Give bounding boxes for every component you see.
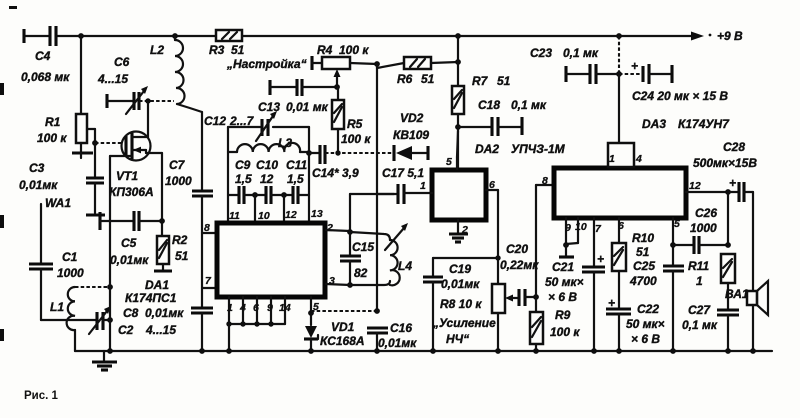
svg-text:C11: C11 xyxy=(286,158,307,172)
wire DA3 pin8 line xyxy=(536,185,553,297)
resistor R9 xyxy=(530,297,580,351)
resistor R4 potentiometer xyxy=(312,43,377,87)
svg-text:1000: 1000 xyxy=(165,174,192,188)
svg-text:0,01мк: 0,01мк xyxy=(110,253,149,267)
svg-text:C17 5,1: C17 5,1 xyxy=(382,166,424,180)
capacitor C19 xyxy=(423,258,480,351)
svg-text:VD1: VD1 xyxy=(331,320,355,334)
svg-text:0,1 мк: 0,1 мк xyxy=(563,46,599,60)
node R6/R7 xyxy=(455,59,461,65)
capacitor C21 label xyxy=(545,260,584,304)
inductor L2 xyxy=(150,36,202,112)
capacitor C13 xyxy=(258,79,337,114)
capacitor C5 xyxy=(100,211,162,267)
wire DA1 pin5 xyxy=(308,297,319,325)
resistor R8 potentiometer Усиление НЧ xyxy=(432,284,518,351)
capacitor C1 xyxy=(29,250,84,320)
svg-text:50 мк×: 50 мк× xyxy=(626,317,665,331)
svg-text:DA2: DA2 xyxy=(475,142,499,156)
power amp IC DA3 К174УН7 xyxy=(554,168,686,218)
node pin6 link xyxy=(495,255,500,260)
svg-text:2: 2 xyxy=(461,224,468,236)
node C26 tap xyxy=(670,242,676,248)
supply arrow +9 В xyxy=(691,29,743,43)
capacitor C20 xyxy=(500,242,539,306)
capacitor C4 xyxy=(21,26,70,84)
svg-text:C14* 3,9: C14* 3,9 xyxy=(312,166,359,180)
capacitor C27 xyxy=(682,303,739,351)
svg-text:+: + xyxy=(631,59,638,73)
wire DA3 pin12 output xyxy=(686,189,731,248)
inductor L4 xyxy=(385,223,412,285)
svg-text:C24 20 мк × 15 В: C24 20 мк × 15 В xyxy=(632,89,728,103)
svg-text:0,068 мк: 0,068 мк xyxy=(21,70,70,84)
diode VD2 КВ109 varicap xyxy=(393,111,429,161)
svg-text:L1: L1 xyxy=(50,300,64,314)
node tap pin12 xyxy=(281,192,287,198)
wire C6 to L2/drain xyxy=(139,100,174,102)
svg-text:0,01мк: 0,01мк xyxy=(441,277,480,291)
svg-text:C4: C4 xyxy=(35,49,51,63)
svg-text:К174УН7: К174УН7 xyxy=(678,117,730,131)
square IC DA2 УПЧЗ-1М xyxy=(432,142,566,220)
svg-text:WA1: WA1 xyxy=(45,196,71,210)
wire tuning line R4 down xyxy=(376,64,378,311)
resistor R5 xyxy=(332,87,371,153)
svg-text:„Настройка“: „Настройка“ xyxy=(226,57,307,71)
svg-text:2: 2 xyxy=(326,222,333,234)
svg-text:12: 12 xyxy=(285,209,297,221)
capacitor C10 xyxy=(255,158,284,204)
svg-text:13: 13 xyxy=(311,208,323,220)
svg-text:100 к: 100 к xyxy=(550,325,580,339)
capacitor C26 xyxy=(673,206,728,254)
svg-text:R7: R7 xyxy=(472,74,489,88)
wire pin8 stub xyxy=(202,232,216,234)
svg-text:R9: R9 xyxy=(555,308,571,322)
svg-text:R6: R6 xyxy=(397,72,413,86)
svg-text:DA3: DA3 xyxy=(642,117,666,131)
wire gate to VT1 xyxy=(95,142,122,144)
resistor R10 xyxy=(612,218,654,308)
svg-text:C3: C3 xyxy=(29,161,45,175)
svg-text:6: 6 xyxy=(618,220,624,232)
DA1 bottom pins 1 4 6 9 14 xyxy=(226,297,291,351)
svg-text:L4: L4 xyxy=(398,259,412,273)
svg-text:C27: C27 xyxy=(688,303,711,317)
node L2 top xyxy=(172,33,178,39)
svg-text:НЧ“: НЧ“ xyxy=(446,332,469,346)
node L1 link xyxy=(107,284,113,290)
wire supply drop xyxy=(618,36,620,74)
node C5/R2 xyxy=(159,218,165,224)
svg-text:50 мк×: 50 мк× xyxy=(545,275,584,289)
svg-text:9: 9 xyxy=(267,302,273,314)
node supply branch xyxy=(616,33,622,39)
wire ground bus xyxy=(75,350,772,352)
capacitor C25 on pin5 xyxy=(629,218,684,351)
svg-text:14: 14 xyxy=(279,302,291,314)
wire varicap line xyxy=(325,150,394,155)
svg-text:VD2: VD2 xyxy=(400,111,424,125)
svg-text:VT1: VT1 xyxy=(116,169,138,183)
wire C1 to C2 xyxy=(41,319,96,321)
svg-text:DA1: DA1 xyxy=(145,278,169,292)
wire L1 top link xyxy=(75,286,110,288)
svg-text:+: + xyxy=(729,176,736,190)
capacitor C6 variable xyxy=(97,55,148,114)
svg-text:К174ПС1: К174ПС1 xyxy=(125,291,177,305)
svg-text:100 к: 100 к xyxy=(339,43,369,57)
svg-text:1: 1 xyxy=(420,180,426,192)
svg-text:1000: 1000 xyxy=(690,221,717,235)
svg-text:× 6 В: × 6 В xyxy=(631,332,660,346)
resistor R7 xyxy=(452,36,511,169)
capacitor C18 xyxy=(458,98,547,136)
wire C1 branch xyxy=(40,204,42,263)
svg-text:0,1 мк: 0,1 мк xyxy=(682,318,718,332)
capacitor C11 xyxy=(284,158,309,204)
coil box tank L3 xyxy=(228,127,309,222)
node gate junction xyxy=(87,129,98,146)
wire tap pin12 down xyxy=(283,195,285,222)
svg-text:8: 8 xyxy=(542,175,548,187)
svg-text:R8 10 к: R8 10 к xyxy=(440,297,482,311)
node C23/C24 xyxy=(616,71,622,77)
svg-text:82: 82 xyxy=(354,266,368,280)
svg-text:C16: C16 xyxy=(390,321,412,335)
node C16 top xyxy=(374,308,380,314)
wire pin6/C19 link xyxy=(433,257,498,259)
svg-text:L2: L2 xyxy=(150,43,164,57)
svg-text:51: 51 xyxy=(497,74,511,88)
wire top +9V rail xyxy=(24,35,692,37)
inductor L3 xyxy=(228,136,309,152)
wire DA1 pin3 xyxy=(326,281,390,285)
svg-text:4...15: 4...15 xyxy=(145,323,176,337)
node C4/R1 junction xyxy=(78,33,84,39)
svg-text:9: 9 xyxy=(565,222,571,234)
label DA3 xyxy=(642,117,730,131)
svg-text:C23: C23 xyxy=(530,46,552,60)
svg-text:C2: C2 xyxy=(118,323,134,337)
capacitor C24 polarized xyxy=(619,59,728,103)
svg-text:R5: R5 xyxy=(347,117,363,131)
svg-text:× 6 В: × 6 В xyxy=(548,290,577,304)
svg-text:1000: 1000 xyxy=(57,266,84,280)
inductor L1 xyxy=(50,287,75,351)
wire DA3 pin7 with electrolytic xyxy=(582,218,605,351)
svg-text:КП306А: КП306А xyxy=(109,185,154,199)
antenna terminal WA1 xyxy=(45,196,105,215)
node tap pin10 xyxy=(252,192,258,198)
wire DA2 pin6 xyxy=(486,179,498,284)
svg-text:„Усиление: „Усиление xyxy=(432,316,496,330)
svg-text:+9 В: +9 В xyxy=(717,29,743,43)
svg-text:Рис. 1: Рис. 1 xyxy=(24,390,59,402)
svg-text:0,1 мк: 0,1 мк xyxy=(511,98,547,112)
svg-text:R2: R2 xyxy=(172,233,188,247)
svg-text:C7: C7 xyxy=(169,158,186,172)
svg-text:R10: R10 xyxy=(632,231,654,245)
op-amp mixer IC DA1 К174ПС1 xyxy=(125,223,325,305)
capacitor C15 xyxy=(340,232,374,285)
svg-text:4: 4 xyxy=(239,302,246,314)
node bus junctions xyxy=(107,348,756,354)
node C14 tap xyxy=(306,150,312,156)
resistor R3 xyxy=(209,30,245,57)
svg-text:ВА1: ВА1 xyxy=(725,287,749,301)
svg-text:+: + xyxy=(597,252,604,266)
svg-text:4: 4 xyxy=(635,153,642,165)
svg-text:6: 6 xyxy=(253,302,259,314)
svg-text:R11: R11 xyxy=(688,259,709,273)
wire pin5 to C16 xyxy=(311,310,377,312)
svg-text:6: 6 xyxy=(489,179,495,191)
svg-text:11: 11 xyxy=(229,210,240,222)
wire tap pin10 down xyxy=(254,195,256,222)
node pin3/C15 xyxy=(347,282,353,288)
resistor R11 xyxy=(688,254,735,309)
svg-text:C6: C6 xyxy=(114,55,130,69)
svg-text:10: 10 xyxy=(258,210,270,222)
wire C17 tee xyxy=(350,194,394,232)
svg-text:1,5: 1,5 xyxy=(287,172,304,186)
svg-text:1: 1 xyxy=(696,274,703,288)
svg-text:C10: C10 xyxy=(256,158,278,172)
svg-text:1: 1 xyxy=(227,302,233,314)
diode VD1 КС168А zener xyxy=(304,320,365,351)
capacitor C16 xyxy=(367,321,417,351)
svg-text:5: 5 xyxy=(446,156,452,168)
capacitor C3 xyxy=(19,143,104,213)
resistor R6 xyxy=(377,57,458,86)
capacitor C2 variable xyxy=(89,306,176,337)
wire DA3 pin1 drop xyxy=(618,74,620,143)
capacitor C12 variable xyxy=(204,111,277,141)
node C18 junction xyxy=(455,124,461,130)
svg-text:500мк×15В: 500мк×15В xyxy=(693,156,757,170)
wire VT1 second lead down xyxy=(161,153,163,236)
capacitor C23 xyxy=(530,46,619,84)
capacitor C17 xyxy=(377,166,431,204)
svg-text:100 к: 100 к xyxy=(341,132,371,146)
svg-text:10: 10 xyxy=(575,221,587,233)
wire DA2 pin1 xyxy=(420,180,432,193)
svg-text:1,5: 1,5 xyxy=(235,172,252,186)
svg-text:C18: C18 xyxy=(478,98,500,112)
svg-text:100 к: 100 к xyxy=(37,131,67,145)
wire DA2 pin5 xyxy=(446,131,458,169)
svg-text:51: 51 xyxy=(421,72,435,86)
capacitor C22 polarized xyxy=(606,296,665,351)
svg-text:4700: 4700 xyxy=(629,274,657,288)
svg-text:2...7: 2...7 xyxy=(229,114,255,128)
svg-text:L3: L3 xyxy=(278,136,292,150)
capacitor C7 xyxy=(165,112,213,308)
svg-text:12: 12 xyxy=(260,172,274,186)
resistor R1 xyxy=(37,114,93,158)
svg-text:УПЧЗ-1М: УПЧЗ-1М xyxy=(511,142,566,156)
svg-text:12: 12 xyxy=(689,180,701,192)
svg-text:R3: R3 xyxy=(209,43,225,57)
svg-text:C19: C19 xyxy=(449,262,471,276)
wire DA1 pin2 out xyxy=(326,230,350,231)
svg-text:КВ109: КВ109 xyxy=(393,128,429,142)
wire pin7 stub xyxy=(202,287,216,289)
DA3 pins 9 10 xyxy=(559,218,587,257)
svg-text:C5: C5 xyxy=(121,236,137,250)
svg-text:C20: C20 xyxy=(506,242,528,256)
svg-text:4...15: 4...15 xyxy=(97,72,128,86)
ground main xyxy=(92,351,117,370)
svg-text:0,01 мк: 0,01 мк xyxy=(286,100,329,114)
node R4 right xyxy=(374,61,380,67)
svg-text:0,01мк: 0,01мк xyxy=(145,306,184,320)
svg-text:C1: C1 xyxy=(62,250,78,264)
node R7 top xyxy=(455,33,461,39)
capacitor C14 xyxy=(309,145,359,180)
svg-text:1: 1 xyxy=(609,153,615,165)
capacitor C9 xyxy=(228,158,255,204)
svg-text:51: 51 xyxy=(231,43,245,57)
page edge marks xyxy=(0,6,17,341)
wire R1 top lead xyxy=(80,36,82,114)
ground DA2 pin2 xyxy=(449,220,468,242)
svg-text:C22: C22 xyxy=(637,302,659,316)
svg-text:8: 8 xyxy=(204,222,210,234)
wire pin2 to L4 top xyxy=(350,232,390,240)
svg-text:C9: C9 xyxy=(235,158,251,172)
svg-text:C15: C15 xyxy=(352,240,374,254)
svg-text:C26: C26 xyxy=(695,206,717,220)
svg-text:51: 51 xyxy=(636,245,650,259)
svg-text:C12: C12 xyxy=(204,114,226,128)
svg-text:C28: C28 xyxy=(723,140,745,154)
svg-text:0,22мк: 0,22мк xyxy=(500,258,539,272)
capacitor C8 xyxy=(123,306,213,351)
capacitor C28 polarized xyxy=(693,140,757,202)
node drain junction xyxy=(145,98,150,103)
resistor R2 xyxy=(154,233,189,271)
svg-text:0,01мк: 0,01мк xyxy=(378,336,417,350)
node C20/R9 junction xyxy=(533,294,539,300)
svg-text:0,01мк: 0,01мк xyxy=(19,178,58,192)
svg-text:R1: R1 xyxy=(45,115,61,129)
speaker BA1 xyxy=(725,192,768,351)
pin 1 box xyxy=(608,143,642,167)
node C13/R5 junction xyxy=(334,84,340,90)
wire VT1 source rail xyxy=(109,156,111,351)
transistor VT1 КП306А xyxy=(109,101,162,199)
svg-text:51: 51 xyxy=(175,249,189,263)
svg-text:КС168А: КС168А xyxy=(320,334,365,348)
node pin2/C15 xyxy=(347,229,353,235)
svg-text:C25: C25 xyxy=(633,259,655,273)
svg-text:C21: C21 xyxy=(552,260,574,274)
node C2 link xyxy=(107,317,113,323)
svg-text:C13: C13 xyxy=(258,100,280,114)
svg-text:C8: C8 xyxy=(123,306,139,320)
svg-text:5: 5 xyxy=(674,218,680,230)
svg-text:R4: R4 xyxy=(317,43,333,57)
